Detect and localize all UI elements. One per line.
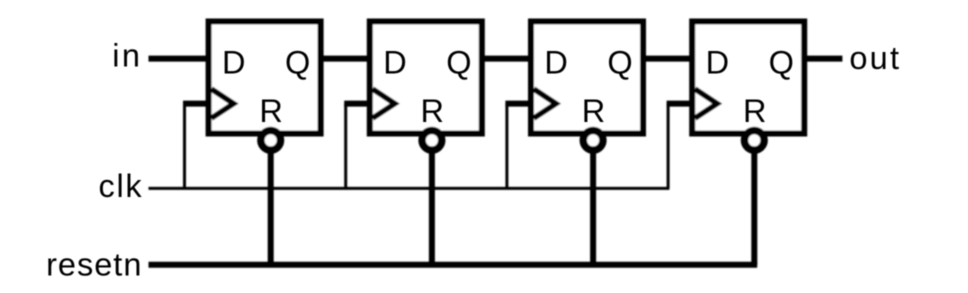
wire U1 R pin to resetn bus [268,141,274,265]
svg-text:out: out [849,40,901,76]
wire clk bus [149,187,670,190]
wire clk stub into U2 clock pin [344,101,372,107]
wire clk branch to U4 [667,104,670,189]
D flip-flop U2 body [370,22,482,134]
wire clk branch to U3 [505,104,508,189]
D flip-flop U4 body [692,22,804,134]
U4 active-low reset bubble [745,131,765,151]
svg-text:D: D [383,45,406,81]
wire clk branch to U1 [183,104,186,189]
wire in net [149,56,211,62]
D flip-flop U1 body [209,22,321,134]
U1 active-low reset bubble [261,131,281,151]
svg-text:Q: Q [446,45,471,81]
svg-text:R: R [421,93,444,129]
wire U1 Q to U2 D [320,56,371,62]
svg-text:Q: Q [769,45,794,81]
wire clk branch to U2 [344,104,347,189]
U2 clock edge triangle [373,89,395,118]
wire U4 Q to out [803,56,842,62]
wire clk stub into U4 clock pin [667,101,695,107]
svg-text:clk: clk [99,168,144,204]
svg-text:D: D [544,45,567,81]
svg-text:R: R [582,93,605,129]
svg-text:D: D [222,45,245,81]
svg-text:R: R [743,93,766,129]
U2 active-low reset bubble [422,131,442,151]
svg-text:D: D [706,45,729,81]
wire U2 R pin to resetn bus [429,141,435,265]
D flip-flop U3 body [531,22,643,134]
svg-text:Q: Q [607,45,632,81]
U3 clock edge triangle [534,89,556,118]
wire U3 R pin to resetn bus [590,141,596,265]
wire resetn bus [149,262,758,268]
wire U2 Q to U3 D [481,56,532,62]
U4 clock edge triangle [695,89,717,118]
svg-text:R: R [259,93,282,129]
svg-text:in: in [112,38,142,74]
wire clk stub into U1 clock pin [183,101,211,107]
U3 active-low reset bubble [583,131,603,151]
svg-text:Q: Q [285,45,310,81]
svg-text:resetn: resetn [46,247,142,283]
wire U4 R pin to resetn bus [751,141,757,265]
wire U3 Q to U4 D [642,56,693,62]
wire clk stub into U3 clock pin [505,101,533,107]
U1 clock edge triangle [211,89,233,118]
